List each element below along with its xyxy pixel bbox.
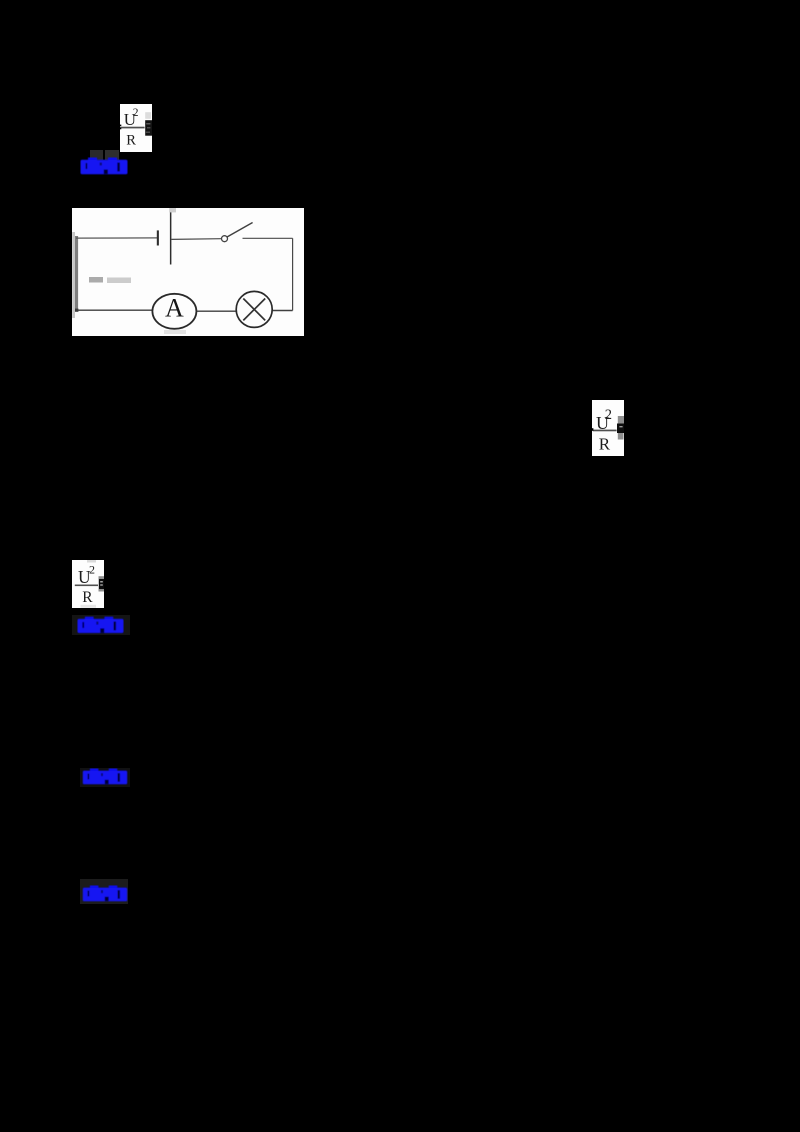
- svg-text:R: R: [599, 434, 611, 453]
- faint halo behind label 2: [72, 615, 130, 635]
- svg-text:2: 2: [89, 563, 95, 577]
- wire battery to switch: [171, 238, 221, 241]
- wire right vertical: [292, 238, 294, 310]
- fraction bar: [75, 585, 98, 587]
- bottom smudge: [81, 605, 97, 608]
- formula image P=U^2/R (top): [120, 104, 152, 152]
- top smudge: [87, 560, 96, 563]
- svg-text:R: R: [82, 589, 93, 606]
- light gray square top right: [145, 112, 151, 119]
- formula image P=U^2/R (right, mid page): [592, 400, 624, 456]
- wire lamp to right: [273, 310, 293, 312]
- svg-text:A: A: [165, 294, 184, 323]
- gray square upper right: [618, 416, 624, 424]
- scan edge dark bar: [75, 236, 78, 312]
- fraction bar: [120, 127, 145, 129]
- dark glyph block right: [617, 424, 624, 434]
- switch lever: [227, 223, 253, 238]
- blue label 3: [82, 768, 129, 785]
- wire bottom left: [77, 309, 154, 311]
- smudge below ammeter: [164, 330, 186, 334]
- fraction bar: [593, 430, 617, 432]
- svg-text:2: 2: [133, 107, 139, 119]
- dark glyph block right: [145, 120, 152, 136]
- corner junction dot: [75, 309, 78, 312]
- equals-sign fragment at left edge: [120, 125, 121, 127]
- wire ammeter to lamp: [197, 310, 237, 312]
- circuit diagram scan: [72, 208, 304, 336]
- equals-sign fragment at left edge: [592, 428, 593, 431]
- jpeg halo block behind label 4: [80, 879, 128, 904]
- svg-text:2: 2: [605, 407, 612, 423]
- scan edge light bar: [72, 232, 75, 318]
- faint halo behind label 3: [80, 768, 130, 787]
- blue label 2: [77, 616, 124, 634]
- wire after switch: [243, 237, 293, 239]
- battery long plate: [170, 210, 172, 265]
- ammeter A1: [152, 294, 196, 329]
- formula image P=U^2/R (left, lower): [72, 560, 104, 608]
- gray square lower right: [618, 433, 624, 440]
- blue label 1: [80, 157, 128, 175]
- svg-text:R: R: [126, 132, 136, 148]
- blue label 4: [82, 885, 129, 902]
- smudge above battery: [169, 208, 176, 212]
- battery short plate: [157, 230, 159, 245]
- wire left top: [76, 237, 158, 239]
- gray block right: [99, 576, 105, 591]
- lamp L1: [236, 291, 272, 327]
- dark glyph inside: [99, 579, 104, 589]
- jpeg halo blobs above label 1: [90, 150, 103, 160]
- switch pivot circle: [222, 236, 228, 242]
- smudge streaks: [89, 277, 103, 283]
